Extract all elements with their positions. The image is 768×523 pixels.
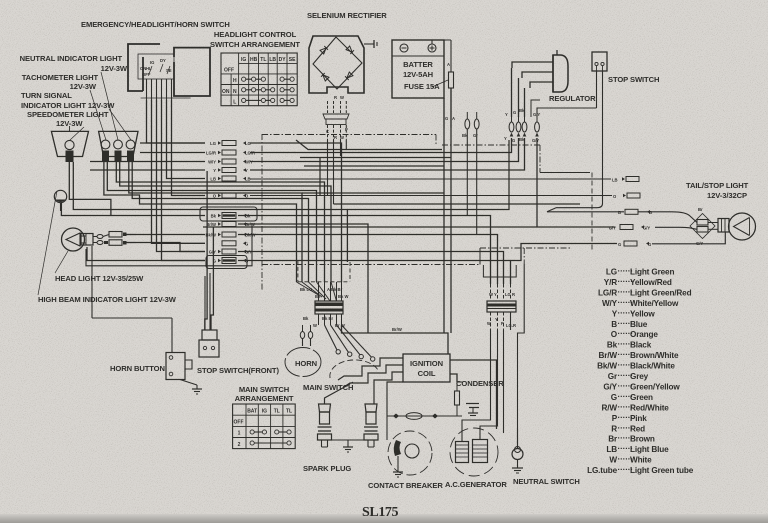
funnel risers into front block — [297, 260, 351, 301]
svg-text:Brown/White: Brown/White — [630, 351, 679, 360]
svg-text:REGULATOR: REGULATOR — [549, 94, 596, 103]
neutral switch — [512, 429, 523, 473]
svg-text:IG: IG — [150, 60, 154, 65]
svg-text:MAIN SWITCH: MAIN SWITCH — [239, 385, 289, 394]
svg-text:LG: LG — [606, 268, 617, 277]
selenium rectifier housing — [309, 36, 364, 93]
svg-text:G/Y: G/Y — [643, 226, 650, 231]
svg-text:Green: Green — [630, 393, 653, 402]
svg-text:W/Y: W/Y — [245, 160, 253, 165]
svg-text:W/Y: W/Y — [602, 299, 618, 308]
svg-text:COIL: COIL — [418, 369, 436, 378]
spark plug right — [364, 404, 378, 447]
svg-text:A: A — [452, 116, 455, 121]
emergency switch contact box — [138, 54, 174, 79]
svg-text:12V-5AH: 12V-5AH — [403, 70, 433, 79]
high beam indicator lamp — [38, 190, 67, 295]
svg-text:W: W — [340, 95, 344, 100]
svg-text:Br: Br — [608, 435, 618, 444]
svg-text:Y: Y — [505, 112, 508, 117]
row west extensions — [90, 143, 205, 170]
svg-text:R: R — [334, 95, 337, 100]
svg-text:Gr: Gr — [473, 133, 478, 138]
regulator — [512, 50, 568, 92]
svg-text:Bk: Bk — [519, 137, 525, 142]
svg-text:1: 1 — [238, 431, 241, 437]
svg-text:Orange: Orange — [630, 330, 658, 339]
svg-text:B: B — [649, 210, 652, 215]
Bk row boundary loop — [200, 207, 257, 221]
svg-text:Light Green: Light Green — [630, 268, 674, 277]
rectifier connector — [323, 95, 349, 140]
horn button — [92, 318, 197, 385]
harness connector column — [206, 141, 256, 264]
rear harness funnel outline — [483, 265, 516, 277]
battery drops — [444, 88, 451, 333]
svg-text:G/Y: G/Y — [245, 250, 252, 255]
main switch to coil staircase — [325, 358, 404, 404]
svg-text:White/Yellow: White/Yellow — [630, 299, 679, 308]
tail harness connector B — [547, 100, 697, 223]
svg-text:NEUTRAL SWITCH: NEUTRAL SWITCH — [513, 477, 580, 486]
svg-text:12V-3W: 12V-3W — [101, 64, 128, 73]
svg-text:Brown: Brown — [630, 435, 655, 444]
svg-text:DY: DY — [279, 57, 287, 63]
head light — [55, 228, 93, 273]
svg-text:Yellow/Red: Yellow/Red — [630, 278, 672, 287]
svg-text:OFF: OFF — [234, 420, 244, 426]
svg-text:TL: TL — [274, 409, 280, 415]
label leader lines — [70, 72, 131, 140]
contact breaker points link — [387, 382, 462, 440]
svg-text:W: W — [313, 323, 317, 328]
svg-text:HORN: HORN — [295, 359, 317, 368]
svg-text:Light Green/Red: Light Green/Red — [630, 288, 692, 297]
svg-text:LG: LG — [245, 141, 251, 146]
svg-text:SWITCH ARRANGEMENT: SWITCH ARRANGEMENT — [210, 40, 300, 49]
svg-text:LB: LB — [606, 445, 617, 454]
battery area bullet connectors Bk Gr — [462, 112, 479, 235]
svg-text:STOP SWITCH: STOP SWITCH — [608, 75, 659, 84]
tail harness connector LB — [250, 177, 639, 183]
svg-text:SELENIUM RECTIFIER: SELENIUM RECTIFIER — [307, 11, 387, 20]
G row boundary loop — [206, 256, 247, 269]
horn body — [285, 348, 321, 377]
svg-text:HEAD LIGHT 12V-35/25W: HEAD LIGHT 12V-35/25W — [55, 274, 144, 283]
rear block drops to generator — [462, 248, 524, 448]
headlight control switch arrangement table — [221, 53, 297, 106]
main switch arrangement table — [233, 404, 296, 449]
svg-text:G/Y: G/Y — [209, 250, 216, 255]
regulator lead drops — [512, 68, 541, 117]
svg-text:Br: Br — [698, 207, 703, 212]
svg-text:Grey: Grey — [630, 372, 649, 381]
svg-text:TAIL/STOP LIGHT: TAIL/STOP LIGHT — [686, 181, 749, 190]
svg-text:Bk: Bk — [607, 341, 618, 350]
svg-text:INDICATOR LIGHT 12V-3W: INDICATOR LIGHT 12V-3W — [21, 101, 115, 110]
head light wires to rows — [87, 235, 205, 261]
front harness connector block — [300, 282, 349, 328]
svg-text:LG R: LG R — [505, 292, 515, 297]
svg-text:ON: ON — [222, 89, 230, 95]
switch housing base line — [141, 97, 191, 99]
G/Y long wire — [203, 226, 614, 228]
horn button ground — [192, 385, 202, 394]
svg-text:Bk: Bk — [211, 214, 217, 219]
svg-text:LB: LB — [210, 177, 216, 182]
bottom page shadow band — [0, 0, 1, 1]
svg-text:EMERGENCY/HEADLIGHT/HORN SWITC: EMERGENCY/HEADLIGHT/HORN SWITCH — [81, 20, 230, 29]
svg-text:A.C.GENERATOR: A.C.GENERATOR — [445, 480, 507, 489]
a.c. generator — [450, 428, 498, 476]
dash-dot chassis lines — [262, 134, 592, 290]
svg-text:IG: IG — [241, 57, 246, 63]
svg-text:G/Y: G/Y — [609, 226, 616, 231]
Br/W wire to ignition coil — [238, 224, 448, 354]
row east runs to rear block — [238, 216, 511, 285]
svg-text:A Bk Br: A Bk Br — [327, 287, 343, 292]
rear connector block — [487, 284, 516, 330]
svg-text:Light Green tube: Light Green tube — [630, 466, 694, 475]
svg-text:G: G — [445, 116, 448, 121]
svg-text:Bk/W: Bk/W — [245, 233, 256, 238]
battery box — [392, 40, 444, 98]
svg-text:SPARK PLUG: SPARK PLUG — [303, 464, 351, 473]
svg-text:NEUTRAL INDICATOR LIGHT: NEUTRAL INDICATOR LIGHT — [20, 54, 123, 63]
switch lead wires — [147, 79, 172, 100]
horn button feed wire — [91, 246, 93, 318]
svg-text:12V-3W: 12V-3W — [70, 82, 97, 91]
tail harness connector G — [618, 232, 725, 247]
ignition coil — [403, 354, 450, 382]
svg-text:DY: DY — [160, 58, 166, 63]
coil right side wires — [450, 360, 497, 429]
svg-text:Green/Yellow: Green/Yellow — [630, 382, 680, 391]
stop switch front — [199, 273, 219, 357]
svg-text:HB: HB — [250, 57, 258, 63]
harness group boundary — [86, 225, 252, 266]
svg-text:MAIN SWITCH: MAIN SWITCH — [303, 383, 353, 392]
svg-text:BATTER: BATTER — [403, 60, 433, 69]
svg-text:ARRANGEMENT: ARRANGEMENT — [235, 394, 294, 403]
rectifier output terminal symbol — [364, 40, 377, 48]
G row jog to tail — [511, 244, 618, 261]
svg-text:R: R — [334, 135, 337, 140]
mid bus wires — [296, 140, 580, 210]
svg-text:FUSE 15A: FUSE 15A — [404, 82, 440, 91]
svg-text:HIGH BEAM INDICATOR LIGHT 12V: HIGH BEAM INDICATOR LIGHT 12V-3W — [38, 295, 177, 304]
svg-text:R: R — [611, 424, 617, 433]
spark plug ground — [325, 440, 372, 452]
svg-text:BAT: BAT — [247, 409, 257, 415]
speedometer light housing — [51, 126, 88, 162]
svg-text:CONTACT BREAKER: CONTACT BREAKER — [368, 481, 443, 490]
svg-text:LG/R: LG/R — [245, 151, 255, 156]
svg-text:W Y: W Y — [489, 292, 497, 297]
svg-text:A: A — [447, 62, 450, 67]
tail/stop light bulb — [718, 213, 756, 240]
svg-text:W: W — [487, 321, 491, 326]
main switch body arc — [330, 360, 378, 386]
svg-text:HEADLIGHT CONTROL: HEADLIGHT CONTROL — [214, 30, 297, 39]
svg-text:G: G — [611, 393, 617, 402]
svg-text:G: G — [618, 242, 621, 247]
svg-text:Y: Y — [213, 168, 216, 173]
svg-text:G/Y: G/Y — [532, 138, 539, 143]
svg-text:Y/R: Y/R — [604, 278, 617, 287]
indicator cluster housing — [99, 131, 138, 161]
svg-text:Y: Y — [504, 136, 507, 141]
svg-text:SL175: SL175 — [362, 505, 399, 520]
svg-text:SE: SE — [289, 57, 296, 63]
switch wires to connector rows — [147, 100, 206, 261]
svg-text:Black/White: Black/White — [630, 362, 675, 371]
regulator bullet connectors — [504, 108, 540, 143]
svg-text:STOP SWITCH(FRONT): STOP SWITCH(FRONT) — [197, 366, 279, 375]
svg-text:LG/R: LG/R — [206, 151, 216, 156]
wire color legend — [587, 267, 694, 476]
svg-text:LG/R: LG/R — [598, 288, 617, 297]
row east runs to regulator bullets — [250, 138, 537, 227]
svg-text:IGNITION: IGNITION — [410, 359, 443, 368]
svg-text:Gr: Gr — [608, 372, 618, 381]
tail harness connector O — [250, 193, 640, 199]
svg-text:IG: IG — [262, 409, 267, 415]
svg-text:LG: LG — [210, 141, 216, 146]
tail harness connector G/Y — [203, 225, 697, 231]
horn feed connectors — [300, 325, 312, 346]
svg-text:Y: Y — [495, 317, 498, 322]
condenser — [455, 382, 480, 416]
svg-text:White: White — [630, 456, 652, 465]
svg-text:12V-3/32CP: 12V-3/32CP — [707, 191, 747, 200]
svg-text:Red/White: Red/White — [630, 403, 669, 412]
svg-text:Bk W: Bk W — [338, 294, 349, 299]
svg-text:TACHOMETER LIGHT: TACHOMETER LIGHT — [22, 73, 99, 82]
spark plug left — [318, 404, 332, 447]
svg-text:P: P — [501, 321, 504, 326]
svg-text:G: G — [245, 242, 248, 247]
svg-text:B: B — [611, 320, 617, 329]
stop switch wire to bullets — [537, 108, 597, 117]
svg-text:LB: LB — [612, 178, 618, 183]
head light connectors — [93, 232, 136, 246]
svg-text:HORN BUTTON: HORN BUTTON — [110, 364, 165, 373]
stop switch front feed wires — [205, 171, 214, 330]
svg-text:P: P — [345, 127, 348, 132]
svg-text:Bk Br: Bk Br — [322, 316, 334, 321]
svg-text:ON: ON — [140, 66, 146, 71]
svg-text:B: B — [618, 210, 621, 215]
svg-text:Br/W: Br/W — [392, 327, 402, 332]
svg-text:Bk: Bk — [303, 316, 309, 321]
svg-text:Bk: Bk — [245, 214, 251, 219]
svg-text:Pink: Pink — [630, 414, 647, 423]
rectifier connector drops — [328, 140, 347, 204]
svg-text:Y: Y — [245, 168, 248, 173]
svg-text:Light Blue: Light Blue — [630, 445, 669, 454]
svg-text:TL: TL — [260, 57, 266, 63]
contact breaker — [388, 431, 432, 477]
fuse 15A — [432, 40, 455, 128]
svg-text:Red: Red — [630, 424, 645, 433]
svg-text:LB: LB — [245, 177, 251, 182]
stop switch rear — [592, 52, 607, 108]
svg-text:Br/W: Br/W — [598, 351, 617, 360]
svg-text:G: G — [513, 110, 516, 115]
tail light bullet connectors — [690, 207, 718, 246]
svg-text:LG.tube: LG.tube — [587, 466, 617, 475]
svg-text:G: G — [512, 138, 515, 143]
main switch wire eyelets — [325, 325, 375, 361]
svg-text:R/W: R/W — [602, 403, 618, 412]
svg-text:Blue: Blue — [630, 320, 648, 329]
svg-text:Black: Black — [630, 341, 652, 350]
svg-text:N: N — [233, 89, 237, 95]
svg-text:Bk/W: Bk/W — [597, 362, 617, 371]
high beam indicator wire to Bk row — [61, 203, 205, 216]
emergency/headlight/horn switch housing — [128, 44, 210, 96]
svg-text:LB: LB — [269, 57, 276, 63]
svg-text:TURN SIGNAL: TURN SIGNAL — [21, 91, 72, 100]
rectifier diode bridge — [313, 37, 362, 89]
speedometer lamp leads — [69, 162, 347, 262]
svg-text:TL: TL — [286, 409, 292, 415]
svg-text:C: C — [326, 129, 329, 134]
svg-text:H: H — [233, 78, 237, 84]
svg-text:L: L — [233, 100, 236, 106]
row east runs: LG to front block — [250, 143, 342, 282]
svg-text:2: 2 — [238, 442, 241, 448]
svg-text:W: W — [340, 135, 344, 140]
svg-text:W: W — [609, 456, 617, 465]
svg-text:OFF: OFF — [224, 68, 234, 74]
svg-text:G/Y: G/Y — [603, 382, 617, 391]
indicator cluster lamp leads — [104, 162, 331, 282]
svg-text:W/Y: W/Y — [208, 160, 216, 165]
svg-text:G: G — [648, 242, 651, 247]
svg-text:Yellow: Yellow — [630, 309, 655, 318]
